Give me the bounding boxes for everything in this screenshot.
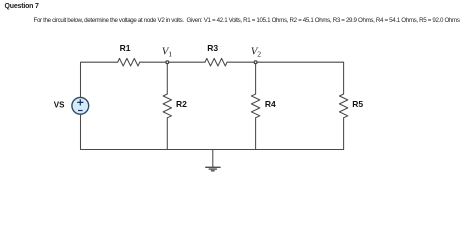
resistor R1 <box>118 58 140 66</box>
resistor R2 <box>163 94 171 118</box>
svg-text:V2: V2 <box>251 46 262 59</box>
svg-text:R5: R5 <box>352 99 363 109</box>
resistor R5 <box>339 94 347 118</box>
ground <box>205 167 220 171</box>
wire node V1 down <box>166 62 168 94</box>
svg-text:VS: VS <box>54 101 65 110</box>
node V2 <box>254 61 257 64</box>
wire R1 to R3 <box>140 61 205 63</box>
wire node V2 down <box>255 62 257 94</box>
problem statement text <box>34 17 460 24</box>
svg-text:R3: R3 <box>207 43 218 53</box>
svg-text:V1: V1 <box>162 46 173 59</box>
wire R2 to bottom rail <box>166 118 168 150</box>
wire R3 to top-right corner <box>227 62 344 93</box>
wire VS bottom to bottom-left corner <box>80 114 82 149</box>
voltage source VS <box>72 97 89 114</box>
wire ground stem <box>212 150 214 168</box>
wire R4 to bottom rail <box>255 118 257 150</box>
svg-text:R1: R1 <box>120 43 131 53</box>
svg-text:R2: R2 <box>176 99 187 109</box>
resistor R3 <box>205 58 227 66</box>
question header <box>5 3 39 10</box>
resistor R4 <box>251 94 259 118</box>
wire R5 to bottom-right corner <box>343 118 345 150</box>
node V1 <box>166 61 169 64</box>
wire bottom rail <box>81 149 344 151</box>
wire top-left segment <box>81 62 118 97</box>
svg-text:R4: R4 <box>265 99 276 109</box>
